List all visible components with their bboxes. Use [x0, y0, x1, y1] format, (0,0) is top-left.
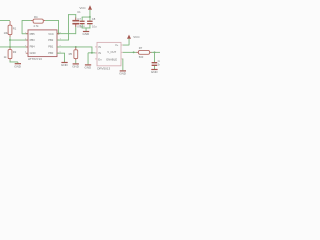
- IC2 box: [97, 42, 121, 70]
- ground: [151, 69, 159, 74]
- svg-text:PB0: PB0: [48, 51, 54, 55]
- svg-text:GND: GND: [30, 51, 36, 55]
- svg-text:500: 500: [139, 55, 144, 59]
- wire VCC down to caps: [89, 10, 92, 17]
- svg-text:ATTINY13: ATTINY13: [28, 57, 42, 61]
- node junction at (76,47): [75, 46, 77, 48]
- wire pin3 horizontal off-page: [0, 46, 28, 49]
- svg-text:C7: C7: [77, 17, 81, 21]
- svg-text:R4: R4: [34, 15, 38, 19]
- wire pin7 loop up and over: [57, 39, 69, 42]
- svg-text:GND: GND: [61, 63, 69, 67]
- resistor R1: [4, 21, 17, 37]
- svg-text:VCC: VCC: [79, 6, 86, 10]
- svg-text:GND: GND: [85, 66, 93, 70]
- wire to ground IC2 left: [87, 53, 90, 65]
- VCC symbol top: [79, 5, 92, 10]
- ground: [85, 64, 93, 69]
- wire C1 bottom to pin8 net: [74, 27, 77, 34]
- svg-text:GND: GND: [72, 65, 80, 69]
- svg-text:V+: V+: [115, 43, 119, 47]
- resistor R5: [69, 47, 78, 60]
- wire VCC to V+ pin: [128, 39, 131, 45]
- resistor R7: [136, 46, 151, 59]
- svg-text:R5: R5: [69, 52, 73, 56]
- svg-text:PB1: PB1: [48, 45, 54, 49]
- capacitor C8: [87, 17, 97, 29]
- resistor R4: [31, 15, 45, 28]
- svg-text:V_OUT: V_OUT: [107, 50, 116, 54]
- wire down to C4: [153, 52, 156, 62]
- wire feedback vertical to pin1: [21, 20, 24, 34]
- wire R4 right to pin8 riser: [45, 19, 59, 22]
- svg-text:GND: GND: [151, 70, 159, 74]
- wires caps to ground: [81, 24, 84, 28]
- wire R2 bottom to ground: [9, 60, 12, 62]
- wire R7 right to edge: [151, 51, 160, 54]
- wire down to IC2 pin: [91, 47, 94, 54]
- svg-text:10u: 10u: [92, 25, 97, 29]
- node junction at (58.5,33.6): [58, 33, 60, 35]
- svg-text:R2: R2: [13, 50, 17, 54]
- wire C4 to ground: [153, 66, 156, 69]
- wire net off-page to R1 top: [0, 19, 10, 22]
- svg-text:C8: C8: [92, 17, 96, 21]
- capacitor C7: [77, 17, 84, 29]
- ground: [61, 62, 69, 67]
- svg-text:PB4: PB4: [30, 45, 36, 49]
- wire pin8 horizontal to C1 bottom: [57, 32, 76, 35]
- wire ENABLE to ground: [121, 59, 124, 71]
- ground: [14, 63, 21, 68]
- node junction at (90,17): [89, 16, 91, 18]
- wire V_OUT to R7: [123, 51, 137, 54]
- wire R5 to ground: [74, 60, 77, 63]
- svg-text:IN: IN: [98, 51, 101, 55]
- VCC symbol right: [127, 35, 140, 40]
- ground: [119, 70, 127, 75]
- svg-text:R1: R1: [13, 26, 17, 30]
- wire pin5 to ground: [57, 52, 65, 55]
- svg-text:C1: C1: [77, 10, 81, 14]
- svg-text:PB3: PB3: [30, 38, 36, 42]
- IC1 box: [28, 30, 57, 61]
- node junction at (92,52.8): [91, 52, 93, 54]
- svg-text:10k: 10k: [4, 31, 9, 35]
- svg-text:PB5: PB5: [30, 32, 36, 36]
- IC2 pin stubs: [95, 45, 123, 60]
- IC1 pin stubs right: [57, 32, 62, 54]
- wire R1 bottom to pin3 net: [9, 37, 12, 47]
- svg-text:GND: GND: [119, 72, 127, 76]
- svg-text:C4: C4: [158, 59, 160, 63]
- IC1 pin stubs left: [25, 32, 28, 54]
- svg-text:GND: GND: [83, 32, 91, 36]
- capacitor C1: [72, 10, 85, 28]
- ground: [72, 63, 80, 68]
- svg-text:ENABLE: ENABLE: [106, 57, 117, 61]
- svg-text:5n: 5n: [158, 63, 160, 67]
- svg-text:GND: GND: [14, 64, 21, 68]
- svg-text:4.7k: 4.7k: [33, 24, 39, 28]
- svg-text:PB2: PB2: [48, 38, 54, 42]
- svg-text:IN: IN: [98, 45, 101, 49]
- capacitor C4: [152, 59, 162, 67]
- node junction at (133.6,52.3): [133, 51, 135, 53]
- svg-text:VCC: VCC: [48, 32, 54, 36]
- wire pin6 long horizontal: [57, 46, 92, 49]
- wire pin2 horizontal: [10, 39, 28, 42]
- svg-text:DRV5013: DRV5013: [97, 67, 110, 71]
- svg-text:En: En: [98, 57, 102, 61]
- svg-text:VCC: VCC: [133, 35, 140, 39]
- node junction at (10,47): [9, 46, 11, 48]
- node junction at (154.5,52.3): [154, 51, 156, 53]
- ground: [83, 31, 91, 36]
- svg-text:R7: R7: [139, 46, 143, 50]
- resistor R2: [4, 47, 17, 60]
- node junction at (10,40): [9, 39, 11, 41]
